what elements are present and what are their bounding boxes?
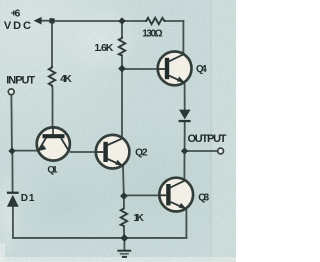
diode D2 (unlabeled, below Q4): [179, 110, 191, 123]
wire node F to 1K: [123, 196, 125, 208]
wire top rail left segment: [52, 20, 145, 22]
node A (top left junction): [49, 18, 55, 24]
node D (input junction): [8, 147, 15, 154]
wire bottom rail: [13, 237, 186, 239]
svg-text:VDC: VDC: [4, 20, 31, 32]
svg-text:Q2: Q2: [135, 148, 148, 159]
wire input node to D1: [11, 151, 13, 192]
background paper: [0, 0, 236, 262]
wire output node to terminal: [185, 150, 217, 152]
node F (Q2 emitter junction): [120, 192, 128, 200]
wire INPUT terminal drop: [10, 95, 13, 151]
svg-text:OUTPUT: OUTPUT: [188, 133, 227, 145]
wire 1.6K bottom: [121, 56, 123, 69]
ground stem: [123, 238, 125, 249]
svg-text:D1: D1: [21, 193, 35, 204]
wire 4K top: [51, 21, 53, 66]
node E (ground junction): [120, 234, 128, 242]
transistor Q1: [37, 127, 70, 160]
wire node C to Q2 collector: [121, 69, 123, 139]
wire +6 arrow stem: [40, 20, 52, 22]
svg-text:+6: +6: [11, 7, 21, 19]
svg-text:130Ω: 130Ω: [142, 29, 162, 40]
svg-text:1K: 1K: [133, 213, 144, 224]
ground: [117, 251, 131, 257]
svg-text:INPUT: INPUT: [6, 75, 35, 87]
diode D1: [7, 192, 19, 207]
transistor Q3: [159, 178, 193, 212]
wire 1K to ground node: [123, 227, 125, 238]
svg-text:1.6K: 1.6K: [94, 42, 113, 54]
svg-text:Q3: Q3: [198, 193, 209, 204]
svg-text:4K: 4K: [60, 73, 72, 85]
wire top rail right segment: [166, 20, 184, 22]
wire Q1 collector to Q2 base: [71, 151, 95, 153]
terminal OUTPUT: [218, 148, 224, 154]
wire 1.6K top: [121, 21, 123, 37]
terminal INPUT: [8, 89, 14, 95]
wire node F to Q3 base: [124, 194, 158, 196]
resistor R 1.6K: [119, 37, 125, 57]
wire Q3 emitter drop: [185, 210, 187, 238]
svg-text:Q4: Q4: [196, 64, 207, 75]
wire Q2 emitter drop: [122, 166, 125, 196]
resistor R 4K: [49, 66, 55, 87]
wire 4K bottom to Q1 base: [52, 87, 54, 127]
wire D1 to bottom rail: [12, 207, 14, 238]
node C (mid junction): [118, 65, 126, 73]
transistor Q4: [158, 52, 192, 86]
wire Q4 emitter to diode: [184, 84, 186, 110]
wire input node to Q1 emitter: [12, 150, 36, 152]
transistor Q2: [96, 135, 130, 169]
resistor R 130ohm (horizontal): [145, 18, 166, 24]
wire output node to Q3 collector: [183, 151, 185, 179]
wire diode to output node: [184, 122, 186, 151]
wire Q4 collector drop: [182, 21, 184, 54]
node B (top middle junction): [118, 17, 125, 24]
+6 VDC arrow: [34, 17, 42, 25]
node G (output junction): [181, 147, 188, 154]
resistor R 1K: [121, 208, 127, 227]
wire node C to Q4 base: [122, 68, 157, 70]
svg-text:Q1: Q1: [47, 165, 58, 176]
